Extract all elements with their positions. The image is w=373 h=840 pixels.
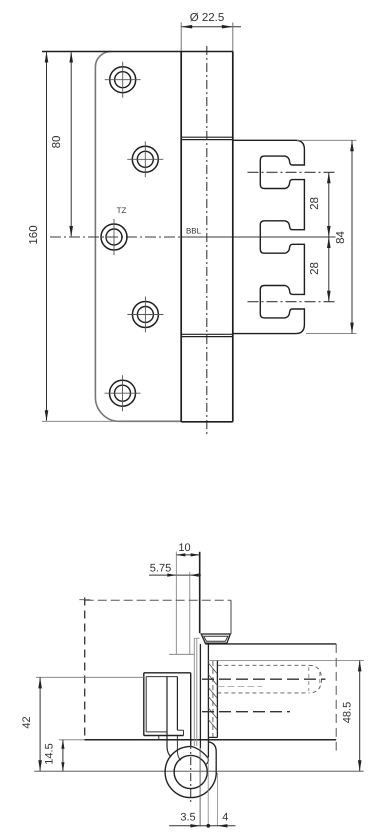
ext line leaf face <box>199 749 201 827</box>
comb mounting plate <box>233 140 305 333</box>
comb top extension <box>297 139 357 141</box>
door block outer <box>144 672 191 674</box>
scroll centerline vertical <box>190 741 192 805</box>
dim 80 <box>70 52 72 236</box>
frame bottom extension <box>59 739 85 741</box>
frame break dashed <box>335 644 337 751</box>
centerline BBL horizontal <box>50 236 181 238</box>
door block inner <box>146 676 177 678</box>
leaf top edge <box>42 51 233 53</box>
block tab <box>177 729 183 731</box>
door plane dashed <box>84 598 86 741</box>
bolt outline bottom dashed <box>217 692 308 694</box>
frame leaf outer <box>199 644 201 748</box>
frame bottom edge <box>85 739 337 741</box>
svg-text:3.5: 3.5 <box>180 812 195 824</box>
bolt outline top dashed <box>217 664 308 666</box>
dowel sleeve bottom <box>208 736 217 738</box>
svg-text:84: 84 <box>335 231 347 244</box>
dim 48.5 <box>359 660 361 771</box>
section trace line <box>85 599 231 601</box>
door leaf strip <box>167 677 171 757</box>
knuckle segment joint upper <box>181 136 233 138</box>
bolt axis tick <box>319 672 321 687</box>
dim 28 lower <box>328 237 330 302</box>
dim 42 <box>39 677 41 771</box>
extension line x190 <box>189 572 191 655</box>
axis line <box>34 770 363 772</box>
dim 28 upper <box>328 172 330 237</box>
centerline slot 1 <box>248 171 336 173</box>
screw hole H1 <box>110 67 136 93</box>
svg-text:80: 80 <box>51 136 63 149</box>
scroll hook <box>206 758 209 765</box>
svg-text:28: 28 <box>309 197 321 210</box>
dim 160 <box>46 52 48 420</box>
scroll inner circle <box>174 755 207 788</box>
svg-text:160: 160 <box>28 225 40 244</box>
ext line sleeve left <box>207 758 209 827</box>
hinge cup outer <box>201 634 230 643</box>
svg-text:10: 10 <box>178 542 190 554</box>
frame face edge <box>199 552 201 633</box>
hinge cup inner <box>204 636 228 641</box>
frame leaf inner sleeve left <box>207 644 209 758</box>
scroll apex flatten <box>191 746 208 757</box>
cup side reference <box>230 600 232 634</box>
svg-text:5.75: 5.75 <box>150 562 171 574</box>
bolt center gray <box>217 685 262 687</box>
dim diameter 22.5 line <box>181 26 241 28</box>
screw hole H5 <box>110 380 136 406</box>
bolt axis lower <box>202 711 290 713</box>
scroll outer arc <box>165 746 216 797</box>
screw hole H2 <box>132 146 158 172</box>
dim 3.5 and 4 <box>169 825 235 827</box>
bolt tip dashed <box>309 665 322 693</box>
screw hole H4 <box>132 302 158 328</box>
hinge leaf outline <box>95 52 181 422</box>
svg-text:48.5: 48.5 <box>341 702 353 723</box>
frame rebate surface <box>205 643 336 645</box>
dowel sleeve center dashed <box>212 661 214 737</box>
sleeve hatching <box>208 663 217 674</box>
ext line sleeve right <box>216 773 218 827</box>
tick at 654 <box>169 653 194 655</box>
centerline slot 3 <box>248 301 336 303</box>
comb bottom extension <box>306 333 357 335</box>
svg-text:Ø 22.5: Ø 22.5 <box>190 12 225 24</box>
dim 42 extension <box>36 676 144 678</box>
door leaf hidden pair <box>193 638 195 746</box>
screw hole H3 <box>101 224 127 250</box>
svg-text:TZ: TZ <box>117 206 127 215</box>
svg-text:BBL: BBL <box>186 227 202 236</box>
sleeve top line <box>208 659 364 661</box>
bottom extension line <box>42 420 121 422</box>
svg-text:28: 28 <box>309 262 321 275</box>
svg-text:14.5: 14.5 <box>43 743 55 764</box>
knuckle barrel <box>180 52 182 422</box>
centerline knuckle axis <box>206 46 208 437</box>
svg-text:42: 42 <box>21 716 33 728</box>
dowel sleeve right edge <box>216 660 218 737</box>
dim 84 <box>351 140 353 333</box>
svg-text:4: 4 <box>222 812 228 824</box>
dim 14.5 <box>62 740 64 771</box>
extension line x176 <box>175 552 177 655</box>
knuckle segment joint lower <box>181 333 233 335</box>
bolt axis upper <box>202 678 326 680</box>
block foot tick <box>158 736 160 740</box>
